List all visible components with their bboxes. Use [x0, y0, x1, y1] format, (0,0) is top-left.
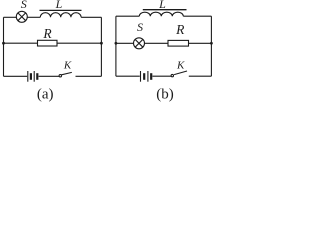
resistor R (b): [168, 40, 189, 46]
inductor L (a) coil: [40, 13, 81, 18]
wire: (b) battery to switch: [153, 75, 172, 77]
wire: (a) middle right segment: [57, 42, 101, 44]
inductor L (b) coil: [139, 12, 183, 16]
node: (a) left junction dot: [2, 42, 5, 45]
wire: (b) middle left segment: [116, 42, 134, 44]
svg-text:R: R: [175, 22, 185, 37]
svg-text:(b): (b): [156, 87, 174, 102]
battery (a): [28, 71, 38, 82]
wire: (b) coil to top-right corner: [183, 15, 211, 17]
svg-text:K: K: [176, 59, 185, 71]
wire: (b) lamp to resistor: [144, 42, 168, 44]
wire: (b) right vertical: [210, 16, 212, 76]
inductor L (a) core bar: [40, 9, 82, 11]
battery (b): [141, 71, 152, 82]
inductor L (b) core bar: [143, 9, 187, 11]
wire: (b) bottom left segment: [116, 75, 140, 77]
wire: (a) left vertical: [3, 17, 5, 76]
node: (b) left junction dot: [115, 42, 118, 45]
svg-text:K: K: [63, 59, 72, 71]
lamp S (b): [134, 38, 145, 49]
wire: (b) switch to bottom-right corner: [189, 75, 212, 77]
svg-text:S: S: [21, 0, 27, 11]
wire: (a) top left segment: [4, 16, 17, 18]
svg-text:(a): (a): [37, 87, 54, 102]
lamp S (a): [16, 11, 27, 22]
resistor R (a): [38, 40, 58, 46]
wire: (a) lamp to coil: [27, 16, 40, 18]
node: (b) right junction dot: [210, 42, 213, 45]
wire: (a) coil to top-right corner: [81, 16, 101, 18]
wire: (b) left vertical: [115, 16, 117, 76]
svg-text:L: L: [158, 0, 166, 11]
wire: (a) right vertical: [100, 17, 102, 76]
wire: (a) battery to switch: [39, 75, 60, 77]
node: (a) right junction dot: [100, 42, 103, 45]
svg-text:R: R: [42, 26, 52, 41]
wire: (b) top left segment: [116, 15, 139, 17]
svg-text:S: S: [137, 20, 143, 34]
wire: (a) middle left segment: [4, 42, 38, 44]
svg-text:L: L: [55, 0, 63, 11]
switch K (a): [59, 72, 72, 77]
switch K (b): [171, 71, 187, 77]
wire: (b) resistor to right: [189, 42, 212, 44]
wire: (a) bottom left segment: [4, 75, 28, 77]
wire: (a) switch to bottom-right corner: [76, 75, 102, 77]
